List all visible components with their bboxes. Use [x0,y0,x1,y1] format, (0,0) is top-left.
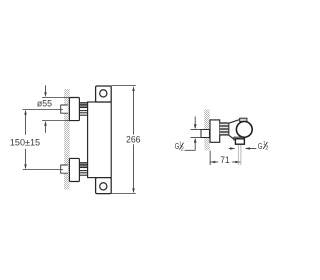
svg-text:150±15: 150±15 [10,138,40,149]
svg-text:G: G [258,142,263,151]
svg-text:266: 266 [126,134,141,145]
svg-text:ø55: ø55 [37,98,52,109]
svg-text:71: 71 [220,155,229,166]
svg-text:2: 2 [265,146,268,152]
